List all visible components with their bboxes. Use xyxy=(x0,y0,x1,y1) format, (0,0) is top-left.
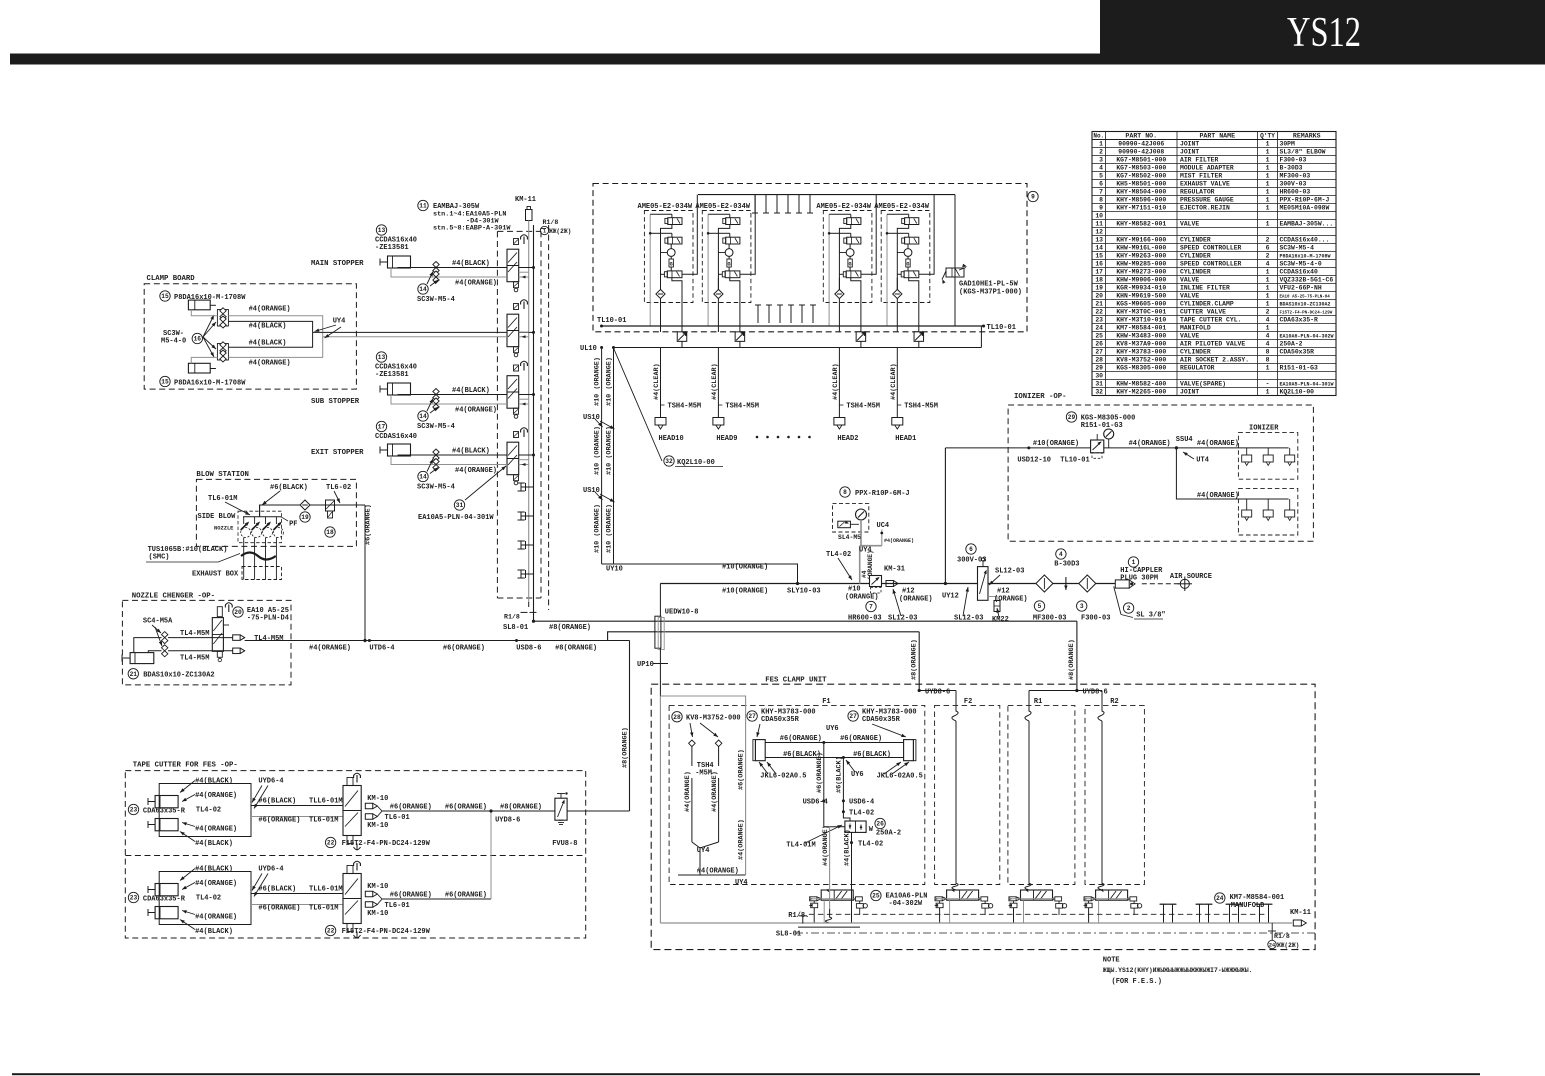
svg-text:KHW-M9906-000: KHW-M9906-000 xyxy=(1116,276,1166,283)
svg-text:1: 1 xyxy=(1266,388,1270,395)
svg-text:#6(BLACK): #6(BLACK) xyxy=(836,756,844,793)
svg-text:SC4-M5A: SC4-M5A xyxy=(143,617,173,625)
svg-text:CDA50x35R: CDA50x35R xyxy=(862,716,901,724)
svg-text:No.: No. xyxy=(1093,132,1104,139)
svg-text:#6(BLACK): #6(BLACK) xyxy=(258,798,296,806)
svg-text:11: 11 xyxy=(1095,220,1103,227)
fittings KM on nozzle changer xyxy=(233,635,240,641)
bus UL10 xyxy=(612,347,981,349)
ionizer nozzle xyxy=(1289,499,1291,510)
svg-text:F15T2-F4-PN-DC24-129W: F15T2-F4-PN-DC24-129W xyxy=(1280,311,1333,315)
cylinder item 15 lower P8DA16x10 xyxy=(160,376,170,386)
svg-text:30: 30 xyxy=(1095,372,1103,379)
svg-text:UEDW10-8: UEDW10-8 xyxy=(665,609,699,617)
svg-text:USD12-10: USD12-10 xyxy=(1017,457,1051,465)
svg-text:CYLINDER.CLAMP: CYLINDER.CLAMP xyxy=(1180,300,1234,307)
svg-text:UYD6-4: UYD6-4 xyxy=(258,778,283,786)
svg-text:UY4: UY4 xyxy=(333,318,346,326)
head line HEAD10 xyxy=(660,348,662,418)
svg-text:KV8-M3752-000: KV8-M3752-000 xyxy=(1116,356,1166,363)
svg-text:#6(ORANGE): #6(ORANGE) xyxy=(445,804,487,812)
joint 32 KQ2L10-00 leader xyxy=(614,348,663,461)
svg-text:AME05-E2-034W: AME05-E2-034W xyxy=(638,203,693,211)
svg-text:#6(BLACK): #6(BLACK) xyxy=(258,886,296,894)
svg-text:#4(CLEAR): #4(CLEAR) xyxy=(653,363,661,400)
ejector top bus wire xyxy=(698,194,955,196)
svg-text:HEAD10: HEAD10 xyxy=(659,435,684,443)
svg-text:CYLINDER: CYLINDER xyxy=(1180,348,1211,355)
svg-text:EA10A5-PLN-04-301W: EA10A5-PLN-04-301W xyxy=(1280,381,1334,387)
valve manifold dashed enclosure xyxy=(496,231,498,598)
ionizer nozzle xyxy=(1246,448,1248,455)
bus B step up and continue right xyxy=(608,632,920,641)
pilot valve 250A-2 item 26 xyxy=(845,821,866,832)
svg-text:R1/8: R1/8 xyxy=(1274,933,1290,940)
svg-text:MANUFOLD: MANUFOLD xyxy=(1231,902,1265,910)
svg-text:#6(ORANGE): #6(ORANGE) xyxy=(445,892,487,900)
svg-text:#4(ORANGE): #4(ORANGE) xyxy=(455,407,497,415)
svg-text:KHY-M8596-000: KHY-M8596-000 xyxy=(1116,196,1166,203)
blow line xyxy=(260,505,365,516)
svg-text:22: 22 xyxy=(327,928,335,935)
svg-text:UYD8-6: UYD8-6 xyxy=(1083,688,1108,696)
svg-text:EJECTOR.REJIN: EJECTOR.REJIN xyxy=(1180,204,1230,211)
air socket symbol xyxy=(715,740,722,747)
svg-text:2: 2 xyxy=(1266,236,1270,243)
manifold solenoid valve 4 xyxy=(514,432,519,438)
svg-text:#8(ORANGE): #8(ORANGE) xyxy=(555,644,597,652)
side blow nozzle xyxy=(243,517,245,524)
svg-text:1: 1 xyxy=(1099,140,1103,147)
svg-text:KV8-M3752-000: KV8-M3752-000 xyxy=(686,715,741,723)
ionizer nozzle xyxy=(1267,448,1269,455)
cylinder item 21 BDAS10x10 xyxy=(130,653,154,664)
svg-text:#4(ORANGE): #4(ORANGE) xyxy=(1129,440,1171,448)
svg-text:1: 1 xyxy=(543,229,546,235)
clamp board dashed enclosure xyxy=(144,284,356,389)
svg-text:VALVE: VALVE xyxy=(1180,332,1199,339)
bottom border rule xyxy=(12,1073,1480,1075)
svg-text:KHN-M9619-500: KHN-M9619-500 xyxy=(1116,292,1166,299)
svg-text:SPEED CONTROLLER: SPEED CONTROLLER xyxy=(1180,244,1242,251)
svg-text:IONIZER: IONIZER xyxy=(1249,424,1279,432)
feed from UY10 to air line xyxy=(614,564,798,584)
manifold blind plugs xyxy=(521,486,534,488)
svg-text:17: 17 xyxy=(1095,268,1103,275)
bus A drop to FES R side xyxy=(1076,621,1078,690)
svg-text:28: 28 xyxy=(1095,356,1103,363)
svg-text:-75-PLN-D4: -75-PLN-D4 xyxy=(247,615,289,623)
svg-text:PLUG 30PM: PLUG 30PM xyxy=(1120,575,1158,583)
svg-text:#4(BLACK): #4(BLACK) xyxy=(195,840,233,848)
svg-text:(FOR F.E.S.): (FOR F.E.S.) xyxy=(1112,978,1162,986)
nozzle changer valve item 20 EA10 xyxy=(212,618,223,652)
svg-text:EA10 A5-25-75-PLN-04: EA10 A5-25-75-PLN-04 xyxy=(1280,295,1331,299)
svg-text:#6(ORANGE): #6(ORANGE) xyxy=(816,752,824,793)
svg-text:KQ2L10-00: KQ2L10-00 xyxy=(677,459,715,467)
svg-text:24: 24 xyxy=(1269,943,1275,949)
svg-text:R151-01-G3: R151-01-G3 xyxy=(1081,422,1123,430)
svg-text:TL4-02: TL4-02 xyxy=(196,895,221,903)
nozzle changer dashed enclosure xyxy=(122,600,291,685)
F1 supply riser xyxy=(660,696,745,875)
svg-text:ME05M10A-098W: ME05M10A-098W xyxy=(1280,204,1330,211)
svg-text:KM-10: KM-10 xyxy=(367,910,388,918)
svg-text:KHW-M8582-400: KHW-M8582-400 xyxy=(1116,380,1166,387)
exit stopper cylinder item 17 xyxy=(376,421,386,431)
FES clamp unit dashed enclosure xyxy=(651,684,1315,949)
svg-text:ЖЖ(2Ж): ЖЖ(2Ж) xyxy=(549,228,571,235)
UY10 riser pair xyxy=(601,348,603,565)
tape cutter cylinders item 23 xyxy=(128,892,138,902)
svg-text:KG7-M8503-000: KG7-M8503-000 xyxy=(1116,164,1166,171)
svg-text:#4(ORANGE): #4(ORANGE) xyxy=(309,644,351,652)
svg-text:SIDE BLOW: SIDE BLOW xyxy=(198,513,237,521)
valve item 22 label xyxy=(325,925,335,935)
svg-text:GAD10HE1-PL-5W: GAD10HE1-PL-5W xyxy=(959,281,1019,289)
svg-text:JOINT: JOINT xyxy=(1180,140,1199,147)
svg-text:CYLINDER: CYLINDER xyxy=(1180,252,1211,259)
svg-text:#8(ORANGE): #8(ORANGE) xyxy=(500,804,542,812)
tape cutter leader lines xyxy=(180,781,195,793)
svg-text:24: 24 xyxy=(1216,895,1224,902)
svg-text:2: 2 xyxy=(1266,252,1270,259)
node UY4 wires to manifold valve 2 xyxy=(313,331,507,333)
svg-text:17: 17 xyxy=(378,424,386,431)
svg-text:PPX-R10P-6M-J: PPX-R10P-6M-J xyxy=(1280,196,1330,203)
cylinder item 27 right CDA50x35R xyxy=(848,711,858,721)
cutter output wire xyxy=(382,810,491,812)
svg-text:AME05-E2-034W: AME05-E2-034W xyxy=(816,203,871,211)
svg-text:1: 1 xyxy=(1266,188,1270,195)
svg-text:300V-03: 300V-03 xyxy=(1280,180,1307,187)
svg-text:19: 19 xyxy=(301,514,309,521)
svg-text:27: 27 xyxy=(748,713,756,720)
svg-text:VALVE(SPARE): VALVE(SPARE) xyxy=(1180,380,1226,387)
svg-text:AME05-E2-034W: AME05-E2-034W xyxy=(874,203,929,211)
svg-text:G: G xyxy=(849,262,852,268)
dots for heads 3-8 xyxy=(756,436,759,439)
svg-text:HR600-03: HR600-03 xyxy=(848,614,882,622)
svg-text:KM-11: KM-11 xyxy=(515,196,536,204)
svg-text:(ORANGE): (ORANGE) xyxy=(899,595,933,603)
svg-text:KM22: KM22 xyxy=(992,616,1009,624)
svg-text:CLAMP BOARD: CLAMP BOARD xyxy=(147,275,196,283)
svg-text:KHW-M3483-000: KHW-M3483-000 xyxy=(1116,332,1166,339)
svg-text:F1: F1 xyxy=(822,698,830,706)
cylinder item 15 upper P8DA16x10 xyxy=(160,291,170,301)
svg-text:FVU8-8: FVU8-8 xyxy=(552,840,577,848)
svg-text:MAIN STOPPER: MAIN STOPPER xyxy=(311,260,364,268)
svg-text:Q'TY: Q'TY xyxy=(1260,132,1275,139)
svg-text:#4(ORANGE): #4(ORANGE) xyxy=(455,467,497,475)
svg-text:UYD6-4: UYD6-4 xyxy=(258,866,283,874)
manifold supply risers xyxy=(528,221,530,603)
cutter valve item 22 F15T2 xyxy=(343,786,361,836)
svg-text:KM-11: KM-11 xyxy=(1290,909,1311,917)
check valve FVU8-8 xyxy=(555,798,567,820)
svg-text:MF300-03: MF300-03 xyxy=(1033,614,1067,622)
ionizer nozzle box lower xyxy=(1238,488,1297,535)
svg-text:31: 31 xyxy=(456,502,464,509)
svg-text:15: 15 xyxy=(161,379,169,386)
svg-text:SL12-03: SL12-03 xyxy=(995,568,1024,576)
svg-text:KHY-M2265-000: KHY-M2265-000 xyxy=(1116,388,1166,395)
svg-text:JOINT: JOINT xyxy=(1180,388,1199,395)
svg-text:26: 26 xyxy=(876,821,884,828)
clamp board wiring lower orange xyxy=(191,357,217,363)
F2 R1 R2 pigtails to valves xyxy=(955,721,957,874)
head line HEAD2 xyxy=(838,348,840,418)
svg-text:#10 (ORANGE): #10 (ORANGE) xyxy=(594,426,602,475)
R1 sub enclosure xyxy=(1008,705,1075,884)
svg-text:9: 9 xyxy=(1031,194,1035,201)
sub stopper cylinder item 13 xyxy=(376,352,386,362)
svg-text:SSU4: SSU4 xyxy=(1176,436,1193,444)
svg-text:4: 4 xyxy=(1266,260,1270,267)
svg-text:KHY-M3T0C-001: KHY-M3T0C-001 xyxy=(1116,308,1166,315)
svg-text:VFU2-66P-NH: VFU2-66P-NH xyxy=(1280,284,1322,291)
svg-text:UY4: UY4 xyxy=(735,879,748,887)
svg-text:#8(ORANGE): #8(ORANGE) xyxy=(1068,639,1076,680)
svg-text:KG7-M8501-000: KG7-M8501-000 xyxy=(1116,156,1166,163)
svg-text:21: 21 xyxy=(1095,300,1103,307)
air sockets item 28 KV8-M3752-000 xyxy=(672,712,682,722)
svg-text:VALVE: VALVE xyxy=(1180,292,1199,299)
joint SL 3/8 item 2 xyxy=(1123,603,1133,613)
svg-text:KHY-M7151-010: KHY-M7151-010 xyxy=(1116,204,1166,211)
manifold item 24 label xyxy=(1215,893,1225,903)
svg-text:13: 13 xyxy=(378,227,386,234)
svg-text:TSH4-M5M: TSH4-M5M xyxy=(846,403,880,411)
svg-text:SC3W-M5-4: SC3W-M5-4 xyxy=(417,423,455,431)
svg-text:250A-2: 250A-2 xyxy=(876,829,901,837)
svg-text:TL10-01: TL10-01 xyxy=(987,324,1016,332)
clamp board wiring upper black xyxy=(228,321,312,332)
svg-text:KHY-M9166-000: KHY-M9166-000 xyxy=(1116,236,1166,243)
svg-text:1: 1 xyxy=(1266,364,1270,371)
svg-text:1: 1 xyxy=(1266,292,1270,299)
svg-text:20: 20 xyxy=(234,609,242,616)
svg-text:ЖЖ(2Ж): ЖЖ(2Ж) xyxy=(1277,942,1299,949)
svg-text:UP10: UP10 xyxy=(637,661,654,669)
svg-text:#4(CLEAR): #4(CLEAR) xyxy=(832,363,840,400)
svg-text:UT4: UT4 xyxy=(1196,457,1209,465)
svg-text:KQ2L10-00: KQ2L10-00 xyxy=(1280,388,1315,395)
solenoid valve EA10A6 at 1095.6 xyxy=(1096,890,1128,900)
svg-text:TL6-02: TL6-02 xyxy=(326,484,351,492)
svg-text:VQZ332B-5G1-C6: VQZ332B-5G1-C6 xyxy=(1280,276,1334,283)
svg-text:#4(BLACK): #4(BLACK) xyxy=(249,323,287,331)
svg-text:3: 3 xyxy=(1080,603,1084,610)
main air line xyxy=(660,583,1115,585)
item 25 label xyxy=(871,890,881,900)
svg-text:KM-10: KM-10 xyxy=(367,795,388,803)
svg-text:#10(ORANGE): #10(ORANGE) xyxy=(722,564,768,572)
svg-text:#4(ORANGE): #4(ORANGE) xyxy=(249,306,291,314)
F1 valve drops crossing xyxy=(829,889,831,909)
svg-text:#12: #12 xyxy=(997,588,1010,596)
svg-text:2: 2 xyxy=(1099,148,1103,155)
valve item 22 label xyxy=(325,837,335,847)
svg-text:REGULATOR: REGULATOR xyxy=(1180,364,1215,371)
bus line B from nozzle changer xyxy=(245,640,608,642)
svg-text:6: 6 xyxy=(969,546,973,553)
svg-text:G: G xyxy=(670,262,673,268)
svg-text:SLY10-03: SLY10-03 xyxy=(787,588,821,596)
svg-text:KM7-M8584-001: KM7-M8584-001 xyxy=(1230,894,1285,902)
svg-text:KV8-M37A9-000: KV8-M37A9-000 xyxy=(1116,340,1166,347)
svg-text:PF: PF xyxy=(289,521,297,529)
svg-text:AIR SOURCE: AIR SOURCE xyxy=(1170,573,1212,581)
svg-text:G: G xyxy=(728,262,731,268)
svg-text:TSH4-M5M: TSH4-M5M xyxy=(668,403,702,411)
svg-text:VALVE: VALVE xyxy=(1180,276,1199,283)
svg-text:EXHAUST VALVE: EXHAUST VALVE xyxy=(1180,180,1230,187)
svg-text:11: 11 xyxy=(419,203,427,210)
svg-text:14: 14 xyxy=(1095,244,1103,251)
svg-text:TL4-01M: TL4-01M xyxy=(786,842,815,850)
manifold blind stations xyxy=(1160,903,1176,905)
svg-text:KHW-M916L-000: KHW-M916L-000 xyxy=(1116,244,1166,251)
socket merge to UY4 xyxy=(692,842,719,848)
parts table xyxy=(1092,132,1336,396)
svg-text:UY6: UY6 xyxy=(826,725,839,733)
svg-text:19: 19 xyxy=(1095,284,1103,291)
svg-text:KGS-M8305-000: KGS-M8305-000 xyxy=(1116,364,1166,371)
side blow nozzle xyxy=(254,517,256,524)
svg-text:TAPE CUTTER CYL.: TAPE CUTTER CYL. xyxy=(1180,316,1241,323)
svg-text:EA10A5-PLN-04-301W: EA10A5-PLN-04-301W xyxy=(418,514,494,522)
blow valve item 18 VQZ332B xyxy=(326,500,335,511)
svg-text:12: 12 xyxy=(1095,228,1103,235)
svg-text:#4(ORANGE): #4(ORANGE) xyxy=(684,771,692,812)
svg-text:EA10A6-PLN-04-302W: EA10A6-PLN-04-302W xyxy=(1280,333,1334,339)
bus TL10-01 xyxy=(602,325,984,327)
svg-text:5: 5 xyxy=(1099,172,1103,179)
svg-text:VALVE: VALVE xyxy=(1180,220,1199,227)
svg-text:7: 7 xyxy=(1099,188,1103,195)
svg-text:#10 (ORANGE): #10 (ORANGE) xyxy=(594,504,602,553)
svg-text:JOINT: JOINT xyxy=(1180,148,1199,155)
svg-text:#4(BLACK): #4(BLACK) xyxy=(249,339,287,347)
svg-text:-ZE13581: -ZE13581 xyxy=(375,371,409,379)
svg-text:AIR FILTER: AIR FILTER xyxy=(1180,156,1219,163)
svg-text:20: 20 xyxy=(1095,292,1103,299)
side blow manifold bar xyxy=(243,516,281,518)
svg-text:-M5M: -M5M xyxy=(695,769,712,777)
svg-text:KHW-M9285-000: KHW-M9285-000 xyxy=(1116,260,1166,267)
svg-text:UTD6-4: UTD6-4 xyxy=(369,644,394,652)
svg-text:#4(BLACK): #4(BLACK) xyxy=(195,928,233,936)
svg-text:UY6: UY6 xyxy=(851,771,864,779)
svg-text:9: 9 xyxy=(1099,204,1103,211)
svg-text:NOZZLE: NOZZLE xyxy=(214,526,234,532)
svg-text:SL8-01: SL8-01 xyxy=(776,931,801,939)
air filter F300-03 item 3 xyxy=(1079,575,1096,592)
svg-text:-04-302W: -04-302W xyxy=(889,900,923,908)
svg-text:5: 5 xyxy=(1038,603,1042,610)
svg-text:10: 10 xyxy=(1095,212,1103,219)
svg-text:25: 25 xyxy=(872,893,880,900)
svg-text:#4(ORANGE): #4(ORANGE) xyxy=(195,792,237,800)
svg-text:(KGS-M37P1-000): (KGS-M37P1-000) xyxy=(959,289,1022,297)
line from air main down through UEDW10 to UP10 xyxy=(659,584,661,617)
ionizer regulator item 29 R151-01-G3 xyxy=(1066,412,1076,422)
svg-text:CDA50x35R: CDA50x35R xyxy=(1280,348,1315,355)
svg-text:#8(ORANGE): #8(ORANGE) xyxy=(549,624,591,632)
ionizer nozzle xyxy=(1289,448,1291,455)
svg-text:AME05-E2-034W: AME05-E2-034W xyxy=(695,203,750,211)
nozzle changer wiring xyxy=(134,638,162,653)
svg-text:P8DA16x10-M-1708W: P8DA16x10-M-1708W xyxy=(1280,253,1331,259)
svg-text:29: 29 xyxy=(1095,364,1103,371)
svg-text:14: 14 xyxy=(419,413,427,420)
svg-text:KM-31: KM-31 xyxy=(884,566,905,574)
svg-text:4: 4 xyxy=(1099,164,1103,171)
svg-text:MIST FILTER: MIST FILTER xyxy=(1180,172,1222,179)
svg-text:R151-01-G3: R151-01-G3 xyxy=(1280,364,1319,371)
svg-text:21: 21 xyxy=(130,671,138,678)
svg-text:REMARKS: REMARKS xyxy=(1293,132,1321,139)
svg-text:90990-42J008: 90990-42J008 xyxy=(1118,148,1164,155)
svg-text:B-30D3: B-30D3 xyxy=(1054,561,1079,569)
svg-text:#4(ORANGE): #4(ORANGE) xyxy=(195,914,237,922)
svg-text:R1/8: R1/8 xyxy=(543,219,559,226)
svg-text:4: 4 xyxy=(1266,340,1270,347)
svg-text:14: 14 xyxy=(419,474,427,481)
svg-text:1: 1 xyxy=(1266,324,1270,331)
svg-text:CDA63x35-R: CDA63x35-R xyxy=(1280,316,1319,323)
svg-text:SL3/8" ELBOW: SL3/8" ELBOW xyxy=(1280,148,1326,155)
svg-text:R1: R1 xyxy=(1034,698,1042,706)
ionizer wire to nozzle groups xyxy=(1176,447,1288,449)
svg-text:29: 29 xyxy=(1068,414,1076,421)
svg-text:#4(ORANGE): #4(ORANGE) xyxy=(195,880,237,888)
svg-text:F15T2-F4-PN-DC24-129W: F15T2-F4-PN-DC24-129W xyxy=(342,840,431,848)
svg-text:#8(ORANGE): #8(ORANGE) xyxy=(622,727,630,768)
manifold solenoid valve 1 xyxy=(514,239,519,245)
svg-text:INLINE FILTER: INLINE FILTER xyxy=(1180,284,1230,291)
main stopper wires to valve xyxy=(398,267,507,270)
svg-text:#8(ORANGE): #8(ORANGE) xyxy=(911,639,919,680)
svg-text:CUTTER VALVE: CUTTER VALVE xyxy=(1180,308,1226,315)
svg-text:25: 25 xyxy=(1095,332,1103,339)
svg-text:1: 1 xyxy=(1266,268,1270,275)
svg-text:USD6-4: USD6-4 xyxy=(849,799,874,807)
svg-text:#4(ORANGE): #4(ORANGE) xyxy=(738,819,746,860)
svg-text:#10 (ORANGE): #10 (ORANGE) xyxy=(606,357,614,406)
F2 sub enclosure xyxy=(935,705,1000,884)
svg-text:SL12-03: SL12-03 xyxy=(954,614,983,622)
svg-text:90990-42J006: 90990-42J006 xyxy=(1118,140,1164,147)
svg-text:28: 28 xyxy=(673,714,681,721)
svg-text:UY12: UY12 xyxy=(942,593,959,601)
svg-text:KHY-M8582-001: KHY-M8582-001 xyxy=(1116,220,1166,227)
svg-text:-ZE13581: -ZE13581 xyxy=(375,244,409,252)
svg-text:30PM: 30PM xyxy=(1280,140,1296,147)
svg-text:15: 15 xyxy=(1095,252,1103,259)
svg-text:G: G xyxy=(906,262,909,268)
svg-text:13: 13 xyxy=(1095,236,1103,243)
svg-text:TL4-02: TL4-02 xyxy=(858,841,883,849)
svg-text:#4(BLACK): #4(BLACK) xyxy=(452,260,490,268)
svg-text:4: 4 xyxy=(1059,551,1063,558)
solenoid valve EA10A6 at 946.6 xyxy=(947,890,979,900)
svg-text:HEAD2: HEAD2 xyxy=(837,435,858,443)
svg-text:#6(ORANGE): #6(ORANGE) xyxy=(258,905,300,913)
svg-text:SC3W-M5-4: SC3W-M5-4 xyxy=(417,296,455,304)
